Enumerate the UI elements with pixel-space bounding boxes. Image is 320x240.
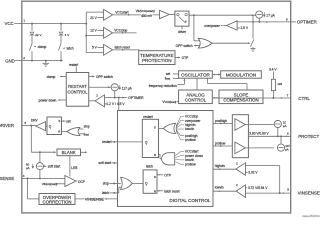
svg-text:latch: latch	[146, 165, 153, 169]
svg-text:PROTECTION: PROTECTION	[142, 58, 172, 63]
svg-text:12 V: 12 V	[90, 29, 97, 33]
svg-text:2: 2	[23, 56, 25, 60]
svg-text:clamp: clamp	[38, 45, 47, 49]
svg-text:6: 6	[287, 132, 289, 136]
svg-text:soft start: soft start	[48, 165, 61, 169]
svg-text:VCCstart: VCCstart	[115, 10, 128, 14]
svg-text:R: R	[58, 129, 60, 133]
svg-text:frequency reduction: frequency reduction	[149, 84, 177, 88]
svg-text:protlow: protlow	[185, 138, 196, 142]
svg-text:OPTIMER: OPTIMER	[128, 96, 144, 100]
svg-text:3.72 V/5.94 V: 3.72 V/5.94 V	[248, 186, 268, 190]
svg-text:soft start: soft start	[98, 161, 111, 165]
svg-text:SLOPE: SLOPE	[234, 92, 249, 97]
svg-text:latch reset: latch reset	[115, 46, 130, 50]
svg-text:OPP switch: OPP switch	[176, 44, 193, 48]
svg-text:22 V: 22 V	[35, 33, 42, 37]
svg-text:3.80 V/0.80 V: 3.80 V/0.80 V	[249, 131, 269, 135]
svg-text:stop: stop	[84, 125, 90, 129]
svg-text:OSCILLATOR: OSCILLATOR	[181, 72, 210, 77]
svg-text:LEB: LEB	[71, 166, 77, 170]
svg-text:restart: restart	[69, 63, 78, 67]
svg-text:OTP: OTP	[164, 173, 172, 177]
svg-text:VCCstop: VCCstop	[114, 28, 127, 32]
svg-text:DRV: DRV	[31, 118, 39, 122]
svg-text:3.4 V: 3.4 V	[269, 68, 277, 72]
svg-text:400 mV: 400 mV	[141, 14, 153, 18]
svg-text:CONTROL: CONTROL	[67, 90, 88, 95]
svg-text:VINSENSE: VINSENSE	[85, 197, 105, 201]
svg-text:ANALOG: ANALOG	[186, 92, 205, 97]
svg-text:clamp: clamp	[47, 75, 56, 79]
svg-text:5: 5	[287, 188, 289, 192]
svg-text:DIGITAL CONTROL: DIGITAL CONTROL	[169, 198, 211, 203]
svg-text:restart: restart	[102, 140, 111, 144]
svg-text:latch: latch	[102, 191, 109, 195]
svg-text:VINSENSE: VINSENSE	[298, 191, 320, 196]
svg-text:8: 8	[286, 17, 288, 21]
svg-text:fmax: fmax	[84, 132, 90, 136]
svg-text:GND: GND	[5, 59, 15, 64]
svg-text:3: 3	[24, 121, 26, 125]
svg-text:S: S	[154, 175, 156, 179]
svg-text:117 µA: 117 µA	[122, 86, 133, 90]
svg-text:CONTROL: CONTROL	[185, 98, 207, 103]
svg-text:CORRECTION: CORRECTION	[43, 200, 72, 205]
svg-text:µA: µA	[26, 166, 30, 170]
svg-text:7: 7	[287, 93, 289, 97]
svg-text:VCC: VCC	[5, 21, 14, 26]
svg-text:µA: µA	[283, 124, 287, 128]
svg-text:protlow: protlow	[215, 141, 226, 145]
svg-text:BLANK: BLANK	[62, 150, 76, 155]
svg-text:RESTART: RESTART	[68, 84, 87, 89]
svg-text:3.02 V: 3.02 V	[248, 170, 258, 174]
svg-text:Vth(ocp(max)): Vth(ocp(max))	[42, 182, 58, 186]
svg-text:MODULATION: MODULATION	[226, 72, 256, 77]
svg-text:VVCO(level): VVCO(level)	[162, 100, 176, 104]
svg-text:set: set	[66, 120, 70, 124]
svg-text:21 V: 21 V	[90, 16, 97, 20]
svg-text:µA: µA	[285, 147, 289, 151]
svg-text:OCP: OCP	[78, 180, 85, 184]
svg-text:lowvin: lowvin	[185, 127, 194, 131]
svg-text:Vth(VCC(restart)): Vth(VCC(restart))	[136, 9, 155, 13]
svg-text:1: 1	[23, 19, 25, 23]
svg-text:power down: power down	[39, 98, 57, 102]
svg-text:S: S	[154, 126, 156, 130]
svg-text:lowvin: lowvin	[215, 185, 224, 189]
svg-text:OTP: OTP	[182, 56, 190, 60]
svg-text:restart: restart	[143, 115, 152, 119]
svg-text:CTRL: CTRL	[298, 96, 310, 101]
svg-text:protlow: protlow	[185, 162, 196, 166]
svg-text:latch reset: latch reset	[164, 190, 179, 194]
svg-text:posthigh: posthigh	[215, 119, 227, 123]
svg-text:PROTECT: PROTECT	[298, 134, 319, 139]
svg-text:set: set	[166, 72, 170, 76]
svg-text:S: S	[58, 119, 60, 123]
svg-text:1k8: 1k8	[277, 82, 282, 86]
svg-text:DRIVER: DRIVER	[0, 123, 14, 128]
svg-text:OPP switch: OPP switch	[96, 75, 113, 79]
svg-text:1.2 V / 4.5 V: 1.2 V / 4.5 V	[106, 102, 125, 106]
svg-text:4: 4	[23, 174, 25, 178]
svg-text:stop: stop	[103, 181, 109, 185]
svg-text:overpower: overpower	[204, 24, 220, 28]
svg-text:17 µA: 17 µA	[266, 14, 275, 18]
svg-text:TEMPERATURE: TEMPERATURE	[140, 53, 174, 58]
svg-text:case-051503: case-051503	[302, 214, 320, 218]
svg-text:OPTIMER: OPTIMER	[297, 20, 317, 25]
svg-text:fmax: fmax	[165, 77, 171, 81]
svg-text:driver: driver	[178, 30, 187, 34]
svg-text:highvin: highvin	[215, 164, 225, 168]
svg-text:latch: latch	[67, 47, 74, 51]
svg-text:ISENSE: ISENSE	[0, 176, 14, 181]
svg-text:2.5 V: 2.5 V	[241, 26, 249, 30]
